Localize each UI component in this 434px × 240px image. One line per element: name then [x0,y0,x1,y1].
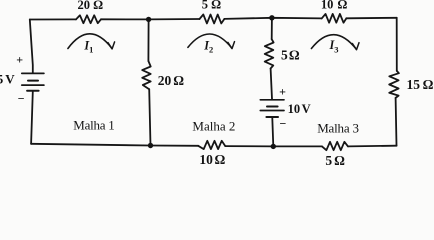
svg-text:Malha 2: Malha 2 [192,118,235,133]
svg-text:5 V: 5 V [0,72,15,87]
resistor 15 ohm (right branch) [389,71,399,98]
resistor 5 ohm (middle-right branch) [265,39,274,68]
svg-text:I3: I3 [329,38,339,54]
battery V2 10V plate long top [260,99,284,101]
arrowhead I2 [228,42,235,49]
svg-text:Malha 1: Malha 1 [73,118,114,133]
junction node top branch3 [269,15,274,20]
battery V1 5V plate long mid [22,84,44,86]
wire top mid-right segment [224,18,321,19]
svg-text:+: + [16,53,23,67]
battery V2 10V plate short mid [267,106,278,108]
battery V2 10V plate long mid [260,110,284,112]
wire top-right segment [346,17,396,20]
wire left upper [30,20,33,73]
svg-text:5 Ω: 5 Ω [281,48,300,63]
resistor 20 ohm (middle branch) [142,61,151,89]
resistor 10 ohm (top, mesh3) [322,14,347,23]
resistor 5 ohm (top, mesh2) [200,15,225,24]
svg-text:I2: I2 [203,38,213,54]
svg-text:+: + [279,84,286,98]
svg-text:15 Ω: 15 Ω [407,77,434,92]
current arrow I1 [68,34,112,49]
resistor 5 ohm (bottom, mesh3) [322,142,348,150]
svg-text:Malha 3: Malha 3 [317,120,359,135]
svg-text:10 Ω: 10 Ω [199,152,225,167]
battery V2 10V plate short bottom [266,116,278,118]
svg-text:−: − [280,116,287,130]
wire bottom-left segment [31,144,198,146]
wire bottom-right segment [348,145,397,148]
battery V1 5V plate short bottom [27,90,38,92]
battery V1 5V plate long top [22,72,44,74]
svg-text:I1: I1 [83,38,93,54]
wire top-left segment [30,18,76,20]
resistor 10 ohm (bottom, mesh2) [198,141,225,149]
current arrow I3 [311,35,356,50]
wire branch3 lower [272,118,273,147]
svg-text:5 Ω: 5 Ω [325,153,345,168]
resistor 20 ohm (top, mesh1) [76,15,101,23]
wire bottom middle segment [225,145,322,147]
svg-text:10 Ω: 10 Ω [321,0,347,12]
wire right lower [395,98,398,146]
wire left lower [31,92,33,144]
junction node bottom branch3 [271,144,276,149]
svg-text:20 Ω: 20 Ω [78,0,104,12]
wire right upper [396,18,398,71]
arrowhead I1 [108,42,115,49]
svg-text:20 Ω: 20 Ω [158,73,184,88]
svg-text:5 Ω: 5 Ω [202,0,221,12]
svg-text:−: − [18,92,25,106]
wire branch3 battery link [271,69,272,100]
battery V1 5V plate short mid [28,80,38,82]
junction node top branch2 [146,17,151,22]
wire top mid-left segment [101,18,200,20]
arrowhead I3 [352,43,359,50]
wire branch2 upper [147,19,149,61]
wire branch2 lower [149,89,150,145]
current arrow I2 [188,34,232,48]
svg-text:10 V: 10 V [288,102,311,116]
wire branch3 upper [271,18,273,39]
junction node bottom branch2 [148,143,153,148]
